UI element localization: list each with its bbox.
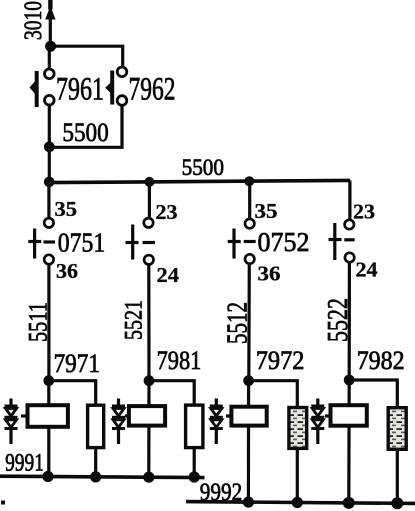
diode D7981 <box>112 399 125 445</box>
wire 5512 <box>247 264 251 381</box>
contact 0751b actuator bar <box>131 225 134 260</box>
contact 0751b actuator tick <box>126 241 139 244</box>
coil 7972 (wire through) <box>247 381 250 502</box>
svg-text:5522: 5522 <box>323 298 354 342</box>
wire R7972 to rail 9992 <box>296 448 299 502</box>
coil 7971 (wire through) <box>47 381 50 477</box>
contact 0751a moving dash <box>44 240 56 243</box>
rail 9992 <box>186 502 415 504</box>
junction 9991 / coil 7971 <box>42 471 53 482</box>
junction 9991 / coil 7981 <box>143 472 154 483</box>
push button 7962: actuator bar <box>110 71 114 105</box>
resistor R7972 (hatched) <box>289 408 307 449</box>
wire bus to contact 0751-23 <box>148 182 151 218</box>
contact 0752a actuator bar <box>232 229 235 259</box>
relay 7971 junction <box>43 375 54 386</box>
contact 0751b moving dash <box>143 241 156 244</box>
junction 9991 / R7981 <box>189 471 200 482</box>
svg-text:35: 35 <box>255 199 278 223</box>
wire down to bus 5500 <box>48 147 51 183</box>
junction 9991 / R7971 <box>90 471 101 482</box>
dash diode to coil 7981 <box>125 414 130 417</box>
push button 7961: actuator bar <box>35 71 39 107</box>
svg-text:7971: 7971 <box>54 349 100 378</box>
junction bus branch 3 <box>244 176 254 186</box>
contact 0751a upper circle (pin 35) <box>44 218 53 227</box>
wire 5521 <box>147 265 150 381</box>
resistor R7981 <box>186 405 203 448</box>
wire R7982 to rail 9992 <box>396 449 399 502</box>
contact 0752b upper circle (pin 23) <box>345 220 354 229</box>
push button 7961: upper terminal circle <box>45 69 55 79</box>
contact 0752a moving dash <box>244 240 256 243</box>
dash diode to coil 7972 <box>226 414 231 417</box>
wire R7981 to rail 9991 <box>193 448 196 476</box>
dash diode to coil 7982 <box>325 414 331 417</box>
junction top (node of 7961/7962 branch) <box>45 41 56 52</box>
wire R7971 to rail 9991 <box>94 448 97 477</box>
svg-text:7982: 7982 <box>357 346 405 375</box>
diode D7982 <box>311 399 324 445</box>
contact 0751b upper circle (pin 23) <box>144 218 153 227</box>
wire bus to contact 0751-35 <box>47 182 50 218</box>
scan speck bottom-left <box>1 501 5 505</box>
wire bus to contact 0752-35 <box>248 181 251 218</box>
wire top horizontal to 7962 branch <box>50 46 122 66</box>
svg-text:0751: 0751 <box>58 228 106 258</box>
wire bus corner to contact 0752-23 <box>348 180 351 219</box>
svg-text:5521: 5521 <box>121 300 148 340</box>
coil 7972 box <box>231 407 266 426</box>
push button 7962: upper terminal circle <box>117 67 127 77</box>
svg-text:36: 36 <box>56 259 78 283</box>
resistor R7971 <box>88 405 104 447</box>
coil 7982 (wire through) <box>347 380 351 502</box>
wire 5511 <box>47 265 50 381</box>
svg-text:23: 23 <box>156 200 178 224</box>
relay 7981 junction <box>144 375 155 386</box>
wire 7982 junction to resistor R7982 <box>349 380 397 407</box>
contact 0752b moving dash <box>344 238 354 241</box>
push button 7961: button head triangle <box>30 81 36 95</box>
junction 5500 merge <box>44 141 55 152</box>
coil 7981 (wire through) <box>147 381 150 476</box>
wire 3010 feed <box>49 0 52 46</box>
svg-text:5512: 5512 <box>223 302 254 344</box>
junction 9992 / R7972 <box>292 497 303 508</box>
svg-text:9991: 9991 <box>5 449 44 476</box>
svg-text:9992: 9992 <box>200 479 243 506</box>
contact 0752b actuator tick <box>329 238 342 241</box>
contact 0751a actuator bar <box>33 229 36 259</box>
rail 9991 <box>0 476 205 477</box>
svg-text:5500: 5500 <box>182 155 224 180</box>
junction 9992 / R7982 <box>391 497 403 509</box>
junction bus left <box>44 177 55 188</box>
svg-text:7961: 7961 <box>56 71 104 107</box>
svg-text:5500: 5500 <box>62 118 108 147</box>
resistor R7982 (hatched) <box>388 408 406 450</box>
contact 0751b lower circle (pin 24) <box>144 255 153 264</box>
contact 0752a actuator tick <box>228 240 241 243</box>
contact 0752a upper circle (pin 35) <box>245 219 254 228</box>
svg-text:24: 24 <box>356 258 379 282</box>
svg-text:36: 36 <box>258 262 281 286</box>
svg-text:7962: 7962 <box>129 71 176 107</box>
wire 7972 junction to resistor R7972 <box>249 381 298 407</box>
junction 9992 / coil 7982 <box>343 497 355 509</box>
svg-text:0752: 0752 <box>258 227 310 257</box>
svg-text:7981: 7981 <box>157 346 202 375</box>
coil 7971 box <box>28 405 68 427</box>
wire 7971 junction to resistor R7971 <box>49 381 96 405</box>
svg-text:35: 35 <box>55 197 78 221</box>
wire 7981 junction to resistor R7981 <box>149 381 194 405</box>
wire 7962 lower down-left to junction 5500 <box>49 105 122 147</box>
relay 7972 junction <box>243 375 254 386</box>
svg-text:23: 23 <box>353 200 375 224</box>
coil 7981 box <box>129 406 165 426</box>
contact 0751a actuator tick <box>28 240 41 243</box>
junction bus branch 2 <box>144 177 154 187</box>
coil 7982 box <box>331 405 367 426</box>
contact 0751a lower circle (pin 36) <box>44 255 53 264</box>
dash diode to coil 7971 <box>21 414 28 417</box>
diode D7972 <box>210 399 223 445</box>
svg-text:5511: 5511 <box>24 302 53 342</box>
arrowhead up on 3010 feed <box>45 6 55 20</box>
push button 7961: lower terminal circle <box>45 95 55 105</box>
contact 0752b actuator bar <box>333 223 336 260</box>
relay 7982 junction <box>344 375 355 386</box>
diode D7971 <box>5 399 18 445</box>
junction 9992 / coil 7972 <box>243 497 254 508</box>
contact 0752a lower circle (pin 36) <box>245 254 254 263</box>
wire junction to 7961 contact <box>48 46 51 68</box>
contact 0752b lower circle (pin 24) <box>345 253 354 262</box>
bus 5500 <box>49 180 350 182</box>
push button 7962: lower terminal circle <box>117 96 127 106</box>
wire 5522 <box>348 263 351 381</box>
svg-text:24: 24 <box>157 263 180 287</box>
push button 7962: button head triangle <box>105 82 111 94</box>
svg-text:7972: 7972 <box>256 346 305 375</box>
svg-text:3010: 3010 <box>20 1 47 40</box>
wire 7961 lower to junction 5500 <box>48 105 51 147</box>
